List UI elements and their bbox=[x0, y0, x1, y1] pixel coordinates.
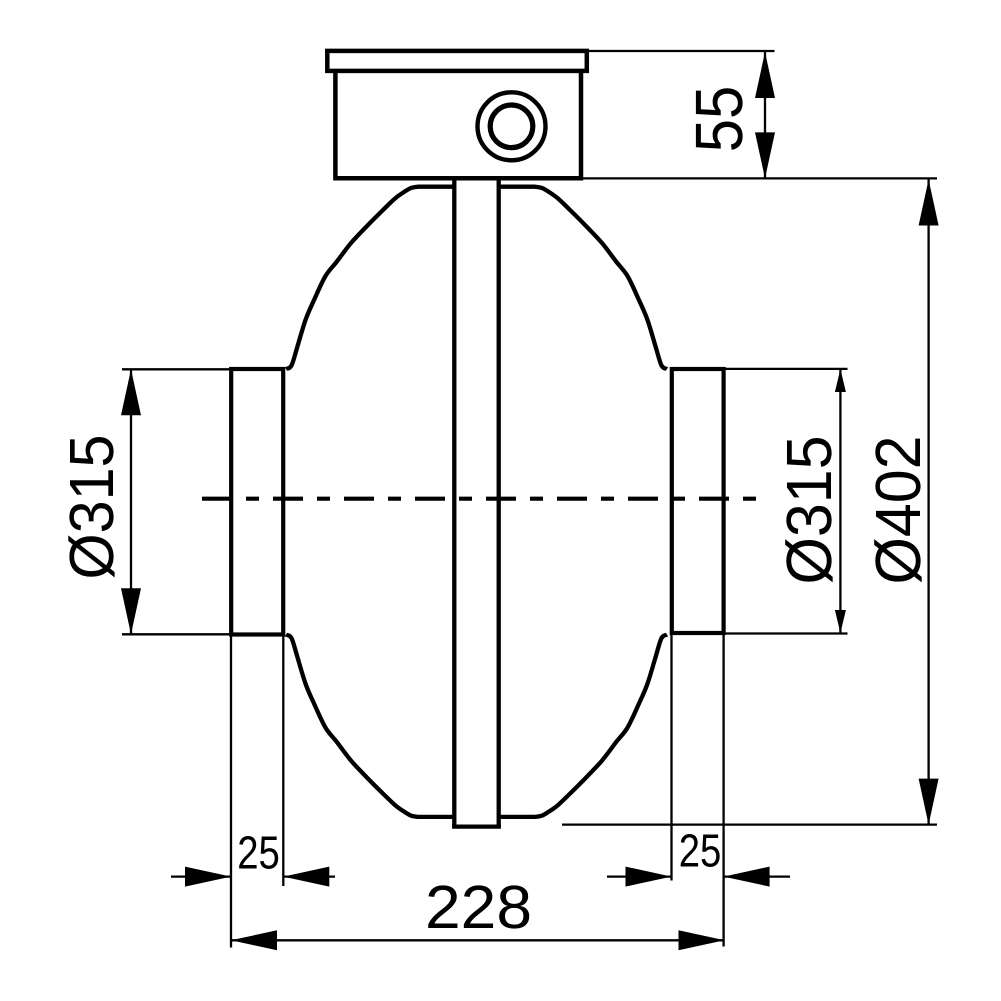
dimension D402 line bbox=[927, 180, 929, 825]
extension line right flange bottom bbox=[724, 632, 848, 634]
dimension 25 left tail left bbox=[171, 875, 231, 877]
dimension D402 arrow up bbox=[919, 180, 939, 226]
left duct stub flange bbox=[231, 369, 283, 635]
dimension 55 arrow up bbox=[755, 52, 775, 98]
svg-text:25: 25 bbox=[679, 825, 722, 877]
svg-text:25: 25 bbox=[237, 827, 280, 879]
extension line top lid right bbox=[589, 50, 775, 52]
extension line left flange top bbox=[122, 368, 231, 370]
extension line right flange right edge down bbox=[722, 634, 724, 947]
extension line left flange bottom bbox=[122, 633, 231, 635]
dimension 25 left arrow right bbox=[185, 867, 231, 887]
extension line left flange right edge down bbox=[282, 636, 284, 886]
dimension 55 line bbox=[764, 52, 766, 178]
extension line box bottom right bbox=[583, 177, 937, 179]
terminal box lid bbox=[327, 51, 587, 71]
dimension 55 arrow down bbox=[755, 132, 775, 178]
svg-text:Ø402: Ø402 bbox=[862, 436, 934, 585]
dimension D315 left arrow up bbox=[121, 369, 141, 415]
casing lower-left curve bbox=[286, 635, 456, 817]
svg-text:228: 228 bbox=[425, 873, 532, 941]
extension line left flange left edge down bbox=[230, 636, 232, 948]
dimension D315 right arrow down bbox=[835, 610, 846, 633]
casing upper-right curve bbox=[497, 187, 667, 369]
right duct stub flange bbox=[672, 369, 724, 633]
svg-text:55: 55 bbox=[682, 86, 757, 153]
dimension D315 left line bbox=[130, 369, 132, 634]
motor strip bottom cap bbox=[452, 824, 501, 828]
dimension D315 right arrow up bbox=[835, 369, 846, 392]
dimension 228 arrow left bbox=[231, 930, 277, 950]
dimension 228 line bbox=[231, 939, 725, 941]
extension line casing bottom right bbox=[562, 823, 937, 825]
extension line right flange left edge down bbox=[670, 634, 672, 881]
dimension 25 right tail right bbox=[724, 875, 790, 877]
dimension 25 right arrow left bbox=[724, 867, 770, 887]
dimension D402 arrow down bbox=[919, 779, 939, 825]
extension line right flange top bbox=[724, 368, 848, 370]
casing lower-right curve bbox=[497, 635, 667, 817]
dimension D315 right line bbox=[839, 369, 841, 633]
cable gland inner ring bbox=[490, 105, 533, 148]
dimension 25 left tail right bbox=[283, 875, 335, 877]
svg-text:Ø315: Ø315 bbox=[773, 436, 845, 585]
casing upper-left curve bbox=[286, 187, 456, 369]
cable gland outer ring bbox=[478, 92, 546, 160]
motor strip left edge bbox=[452, 178, 456, 827]
motor strip right edge bbox=[497, 178, 501, 827]
dimension 25 right arrow right bbox=[626, 867, 672, 887]
dimension 25 right tail left bbox=[607, 875, 672, 877]
dimension 25 left arrow left bbox=[283, 867, 329, 887]
terminal box body bbox=[335, 71, 581, 178]
centerline bbox=[202, 497, 759, 501]
svg-text:Ø315: Ø315 bbox=[57, 435, 127, 580]
dimension 228 arrow right bbox=[679, 930, 725, 950]
dimension D315 left arrow down bbox=[121, 588, 141, 634]
